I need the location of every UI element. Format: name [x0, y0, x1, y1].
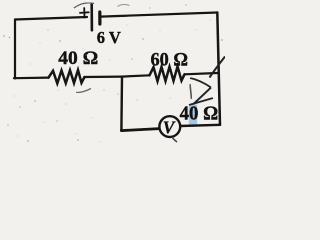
wire node A to R2	[122, 75, 150, 76]
wire bottom-left to voltmeter	[121, 129, 159, 131]
wire voltmeter to right side	[181, 125, 221, 126]
wire middle-left segment	[14, 76, 49, 79]
resistor R1 40ohm zigzag	[49, 70, 85, 83]
annotation scribble: faint vertical dash	[190, 84, 192, 99]
wire R2 to right side	[185, 73, 217, 74]
highlight box on 40	[189, 105, 197, 126]
annotation scribble: lower barb	[194, 88, 212, 105]
wire R1 to node A	[85, 75, 123, 78]
annotation scribble: upper barb	[190, 78, 211, 88]
svg-text:V: V	[163, 117, 176, 137]
annotation scribble: long diagonal stroke	[210, 57, 226, 78]
svg-text:40 Ω: 40 Ω	[58, 48, 98, 69]
pen tail below voltmeter	[173, 138, 178, 142]
wire top-left to battery	[15, 17, 87, 20]
voltmeter V circle	[159, 116, 180, 137]
wire left side	[14, 20, 16, 79]
resistor R2 60ohm zigzag	[150, 67, 185, 82]
wire node A down to bottom loop	[120, 77, 123, 131]
faint pencil squiggle top	[118, 4, 130, 6]
annotation scribble: bottom flick	[189, 98, 213, 105]
pencil dash under middle wire	[76, 89, 91, 93]
pencil arc above battery	[74, 3, 94, 8]
svg-text:6 V: 6 V	[97, 28, 121, 47]
battery B1 6 V	[80, 5, 100, 31]
wire battery to top-right corner	[101, 13, 218, 17]
wire right side	[217, 13, 220, 125]
svg-text:40 Ω: 40 Ω	[180, 103, 219, 124]
svg-text:60 Ω: 60 Ω	[151, 49, 189, 70]
